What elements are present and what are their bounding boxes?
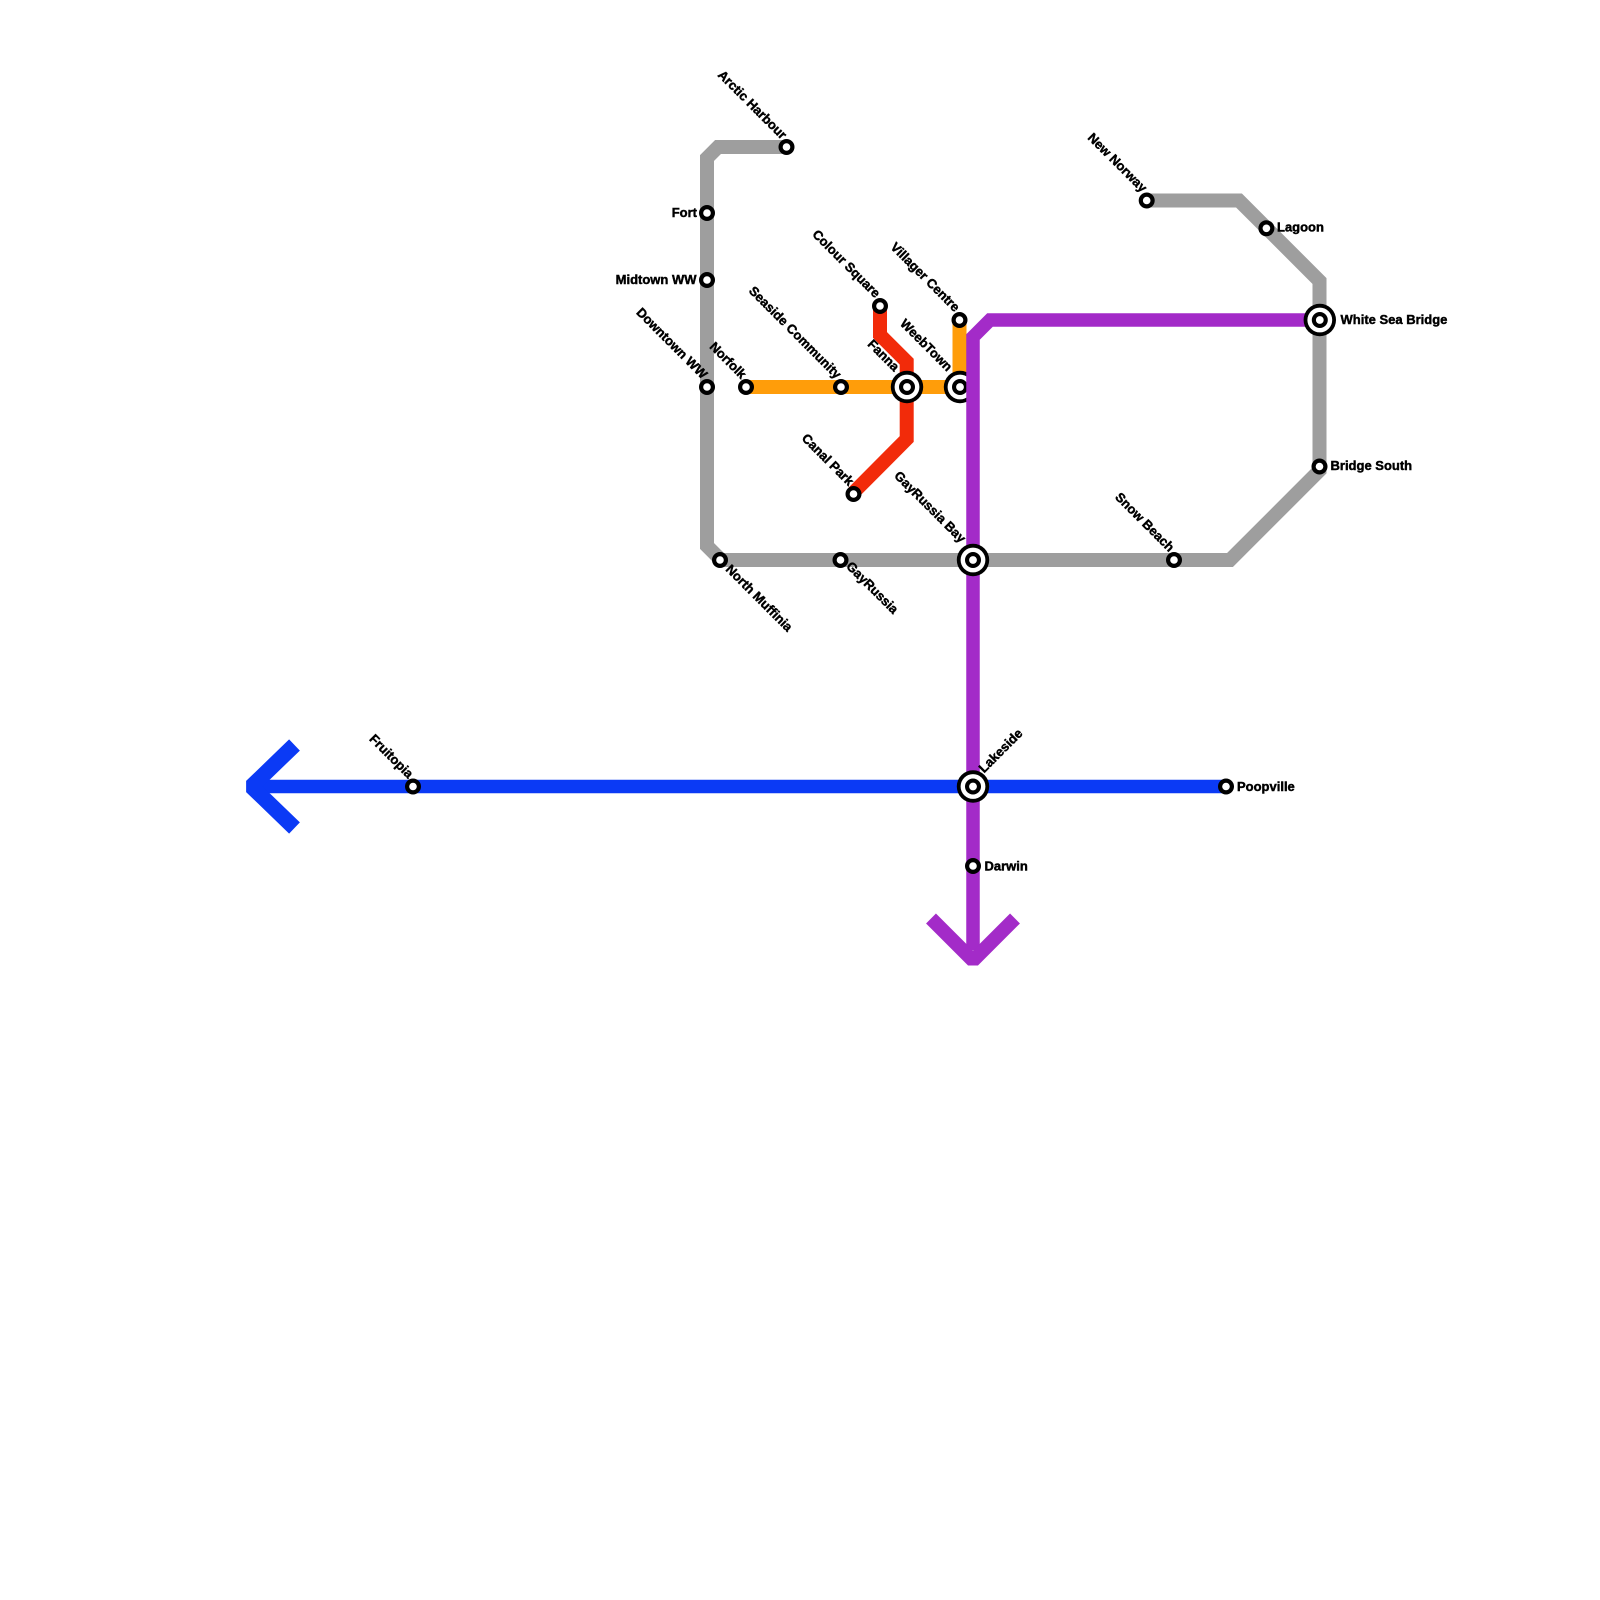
station Bridge South xyxy=(1312,459,1328,475)
purple line (White Sea Bridge - south arrow) xyxy=(973,320,1312,950)
station Colour Square xyxy=(872,298,888,314)
red line (Colour Square - Canal Park) xyxy=(854,306,907,493)
station Fruitopia xyxy=(405,779,421,795)
interchange Lakeside xyxy=(957,770,989,802)
station Seaside Community xyxy=(833,379,849,395)
station Arctic Harbour xyxy=(779,139,795,155)
svg-text:Bridge South: Bridge South xyxy=(1331,458,1413,473)
orange line horizontal (Norfolk - WeebTown) xyxy=(746,380,971,394)
station North Muffinia xyxy=(712,552,728,568)
svg-text:Darwin: Darwin xyxy=(985,859,1028,874)
svg-text:White Sea Bridge: White Sea Bridge xyxy=(1341,312,1448,327)
interchange GayRussia Bay xyxy=(957,544,989,576)
station GayRussia xyxy=(833,552,849,568)
blue line (arrow - Poopville) xyxy=(252,780,1226,794)
blue arrow west xyxy=(252,745,295,828)
svg-text:Fort: Fort xyxy=(672,205,698,220)
svg-text:Poopville: Poopville xyxy=(1237,779,1295,794)
station Darwin xyxy=(965,858,981,874)
station Canal Park xyxy=(846,486,862,502)
station Villager Centre xyxy=(952,312,968,328)
station Fort xyxy=(699,205,715,221)
interchange White Sea Bridge xyxy=(1304,304,1336,336)
station Poopville xyxy=(1218,779,1234,795)
station Norfolk xyxy=(738,379,754,395)
gray line (Arctic Harbour - New Norway loop) xyxy=(707,147,1320,560)
svg-text:Lagoon: Lagoon xyxy=(1277,220,1324,235)
svg-text:Midtown WW: Midtown WW xyxy=(616,272,698,287)
station Midtown WW xyxy=(699,272,715,288)
interchange WeebTown (under purple line) xyxy=(944,371,976,403)
station Snow Beach xyxy=(1166,552,1182,568)
station Downtown WW xyxy=(699,379,715,395)
interchange Fanna xyxy=(891,371,923,403)
orange line branch to Villager Centre xyxy=(949,322,960,387)
station New Norway xyxy=(1139,193,1155,209)
station Lagoon xyxy=(1258,220,1274,236)
purple arrow south xyxy=(931,919,1015,961)
